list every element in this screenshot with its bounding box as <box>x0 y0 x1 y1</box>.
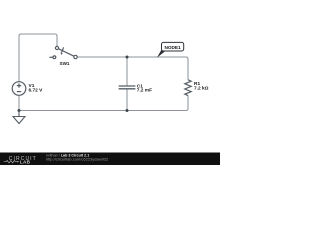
node NODE1 flag tail <box>157 50 166 58</box>
resistor R1 <box>185 80 191 96</box>
footer CircuitLab logo: arrow joint <box>17 161 19 163</box>
svg-text:http://circuitlab.com/c6223yda: http://circuitlab.com/c6223ydaw922 <box>46 156 109 161</box>
footer bar <box>0 153 220 166</box>
junction node at capacitor bottom <box>126 109 129 112</box>
junction node at capacitor top <box>126 56 129 59</box>
switch SW1 <box>49 46 77 58</box>
junction node at ground <box>18 109 21 112</box>
svg-text:SW1: SW1 <box>60 61 70 66</box>
wire: capacitor top branch <box>126 57 128 86</box>
wire: capacitor bottom branch <box>126 89 128 111</box>
node NODE1 flag box <box>162 42 184 51</box>
ground <box>13 111 25 124</box>
wire: top-left vertical from corner to V1 <box>19 34 21 82</box>
svg-text:7.2 mF: 7.2 mF <box>137 88 152 94</box>
wire: switch output to top-right corner <box>77 57 188 80</box>
wire: V1 bottom to ground junction <box>18 95 20 110</box>
svg-text:6.72 V: 6.72 V <box>29 88 44 94</box>
wire: top horizontal to switch drop <box>21 34 57 46</box>
svg-text:NODE1: NODE1 <box>165 45 182 50</box>
svg-text:LAB: LAB <box>20 159 31 164</box>
capacitor C1 <box>119 86 136 89</box>
svg-text:7.2 kΩ: 7.2 kΩ <box>194 86 209 92</box>
footer CircuitLab logo: resistor squiggle <box>4 161 17 163</box>
wire: bottom horizontal rail <box>19 96 188 111</box>
switch actuator arrowhead <box>60 52 62 55</box>
voltage source V1 <box>12 82 26 96</box>
